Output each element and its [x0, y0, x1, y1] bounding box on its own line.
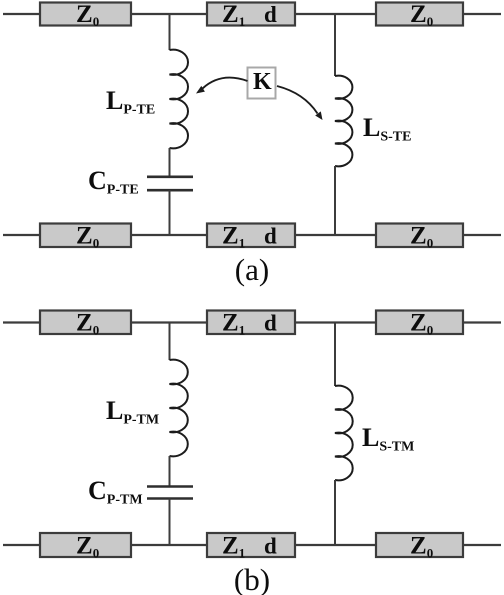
wire: (b) top transmission line [3, 321, 501, 323]
svg-text:LP-TE: LP-TE [106, 86, 155, 118]
impedance box Z1 d (a) top-middle [207, 1, 295, 29]
impedance box Z0 (b) bottom-right [376, 533, 463, 561]
svg-text:(b): (b) [234, 562, 270, 595]
impedance box Z0 (a) bottom-right [376, 223, 463, 251]
impedance box Z1 d (b) top-middle [207, 310, 295, 338]
wire: (b) right branch lower segment [334, 480, 336, 545]
wire: (a) top transmission line [3, 13, 501, 15]
wire: (a) right shunt branch upper segment [334, 14, 336, 76]
wire: (b) left branch between coil and capacitor [169, 456, 171, 486]
svg-text:LS-TE: LS-TE [363, 113, 411, 145]
svg-text:d: d [264, 2, 277, 27]
wire: (a) left branch between coil and capacitor [169, 148, 171, 176]
impedance box Z0 (a) top-right [376, 1, 463, 29]
wire: (a) right branch lower segment [334, 166, 336, 235]
svg-text:(a): (a) [235, 252, 269, 287]
svg-text:K: K [253, 69, 272, 95]
coupling arrow from K to L_P-TE [196, 78, 248, 94]
wire: (a) bottom transmission line [3, 234, 501, 236]
impedance box Z1 d (b) bottom-middle [207, 533, 295, 561]
svg-text:LP-TM: LP-TM [106, 396, 159, 428]
inductor L_P-TM coil [170, 360, 188, 457]
wire: (a) left shunt branch upper segment [169, 14, 171, 50]
wire: (b) left branch below capacitor [169, 499, 171, 546]
svg-text:d: d [264, 224, 277, 249]
impedance box Z0 (b) bottom-left [40, 533, 131, 561]
wire: (a) left branch below capacitor [169, 190, 171, 235]
capacitor C_P-TE [147, 177, 193, 190]
wire: (b) right shunt branch upper segment [334, 323, 336, 387]
coupling arrow from K to L_S-TE [277, 86, 323, 120]
svg-text:CP-TE: CP-TE [88, 166, 139, 198]
impedance box Z0 (a) bottom-left [40, 223, 131, 251]
capacitor C_P-TM [147, 487, 193, 499]
wire: (b) bottom transmission line [3, 544, 501, 546]
inductor L_S-TE coil [335, 76, 352, 167]
svg-text:d: d [264, 311, 277, 336]
svg-text:CP-TM: CP-TM [88, 476, 143, 508]
svg-text:LS-TM: LS-TM [362, 423, 414, 455]
impedance box Z1 d (a) bottom-middle [207, 223, 295, 251]
impedance box Z0 (a) top-left [40, 1, 131, 29]
impedance box Z0 (b) top-right [376, 310, 463, 338]
inductor L_P-TE coil [170, 50, 189, 149]
inductor L_S-TM coil [335, 386, 353, 481]
impedance box Z0 (b) top-left [40, 310, 131, 338]
svg-text:d: d [264, 534, 277, 559]
wire: (b) left shunt branch upper segment [169, 323, 171, 361]
coupling coefficient K box [248, 68, 276, 99]
